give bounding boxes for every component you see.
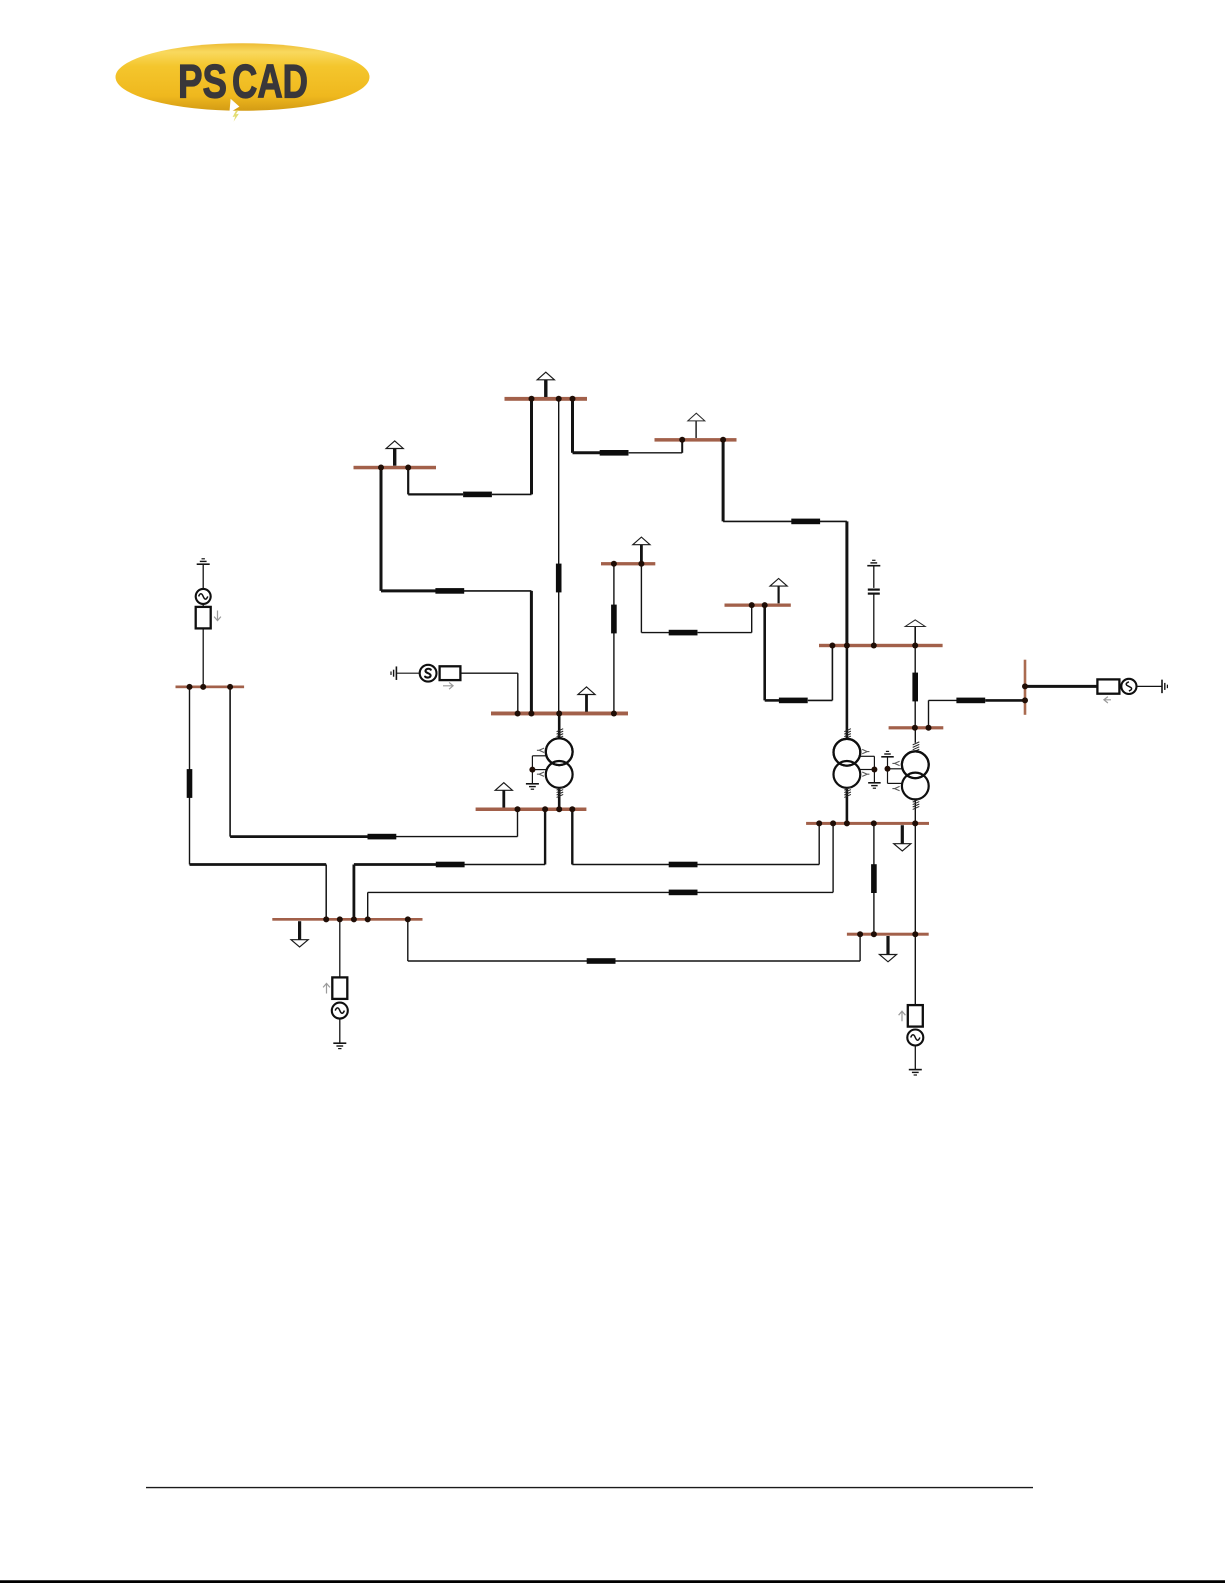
svg-text:CAD: CAD — [232, 55, 308, 108]
svg-text:PS: PS — [178, 55, 227, 108]
